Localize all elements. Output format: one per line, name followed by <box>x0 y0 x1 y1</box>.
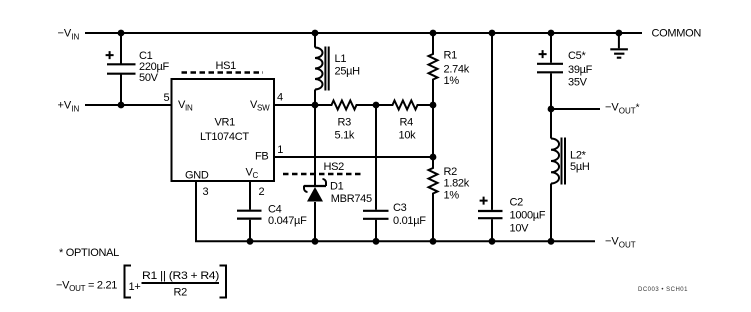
svg-text:COMMON: COMMON <box>652 27 702 39</box>
svg-text:50V: 50V <box>139 72 159 84</box>
svg-text:L2*: L2* <box>570 150 587 162</box>
svg-text:35V: 35V <box>568 76 588 88</box>
svg-text:39µF: 39µF <box>568 64 593 76</box>
svg-text:HS2: HS2 <box>324 161 345 173</box>
svg-text:R2: R2 <box>174 287 188 299</box>
svg-text:R2: R2 <box>444 166 458 178</box>
svg-text:R3: R3 <box>338 117 352 129</box>
svg-text:R4: R4 <box>400 117 414 129</box>
svg-text:LT1074CT: LT1074CT <box>200 131 249 143</box>
svg-text:* OPTIONAL: * OPTIONAL <box>59 247 119 259</box>
svg-text:4: 4 <box>277 92 283 104</box>
svg-text:HS1: HS1 <box>216 60 237 72</box>
svg-text:1+: 1+ <box>129 281 141 293</box>
svg-text:10k: 10k <box>399 130 417 142</box>
svg-text:GND: GND <box>185 170 209 182</box>
svg-text:MBR745: MBR745 <box>331 193 372 205</box>
svg-text:C2: C2 <box>510 197 524 209</box>
svg-text:3: 3 <box>203 186 209 198</box>
svg-text:R1: R1 <box>444 50 458 62</box>
svg-text:1000µF: 1000µF <box>510 210 546 222</box>
svg-text:DC003 • SCH01: DC003 • SCH01 <box>638 287 688 293</box>
svg-text:1: 1 <box>277 144 283 156</box>
svg-text:0.047µF: 0.047µF <box>268 215 307 227</box>
svg-text:2.74k: 2.74k <box>444 63 470 75</box>
svg-text:10V: 10V <box>510 223 530 235</box>
svg-text:D1: D1 <box>330 181 344 193</box>
svg-text:5.1k: 5.1k <box>335 130 355 142</box>
svg-text:5: 5 <box>164 92 170 104</box>
svg-text:VR1: VR1 <box>215 116 236 128</box>
svg-text:R1 || (R3 + R4): R1 || (R3 + R4) <box>142 270 219 282</box>
svg-text:2: 2 <box>259 186 265 198</box>
svg-text:5µH: 5µH <box>570 161 590 173</box>
svg-text:1%: 1% <box>444 190 460 202</box>
svg-text:1.82k: 1.82k <box>444 178 470 190</box>
svg-text:1%: 1% <box>444 75 460 87</box>
svg-text:= 2.21: = 2.21 <box>88 280 117 292</box>
svg-text:25µH: 25µH <box>335 66 361 78</box>
svg-text:C3: C3 <box>393 202 407 214</box>
svg-text:C5*: C5* <box>568 50 586 62</box>
svg-text:FB: FB <box>255 151 268 163</box>
svg-text:L1: L1 <box>335 53 347 65</box>
svg-text:C4: C4 <box>268 204 282 216</box>
svg-text:0.01µF: 0.01µF <box>393 215 426 227</box>
